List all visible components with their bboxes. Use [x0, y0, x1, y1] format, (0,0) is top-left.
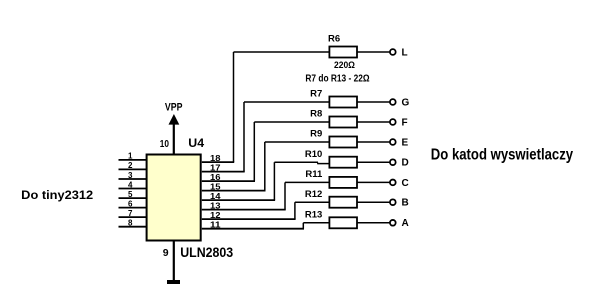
svg-text:Do katod wyswietlaczy: Do katod wyswietlaczy	[431, 146, 573, 163]
svg-text:14: 14	[210, 192, 221, 201]
svg-text:7: 7	[128, 209, 133, 218]
svg-text:5: 5	[128, 190, 133, 199]
svg-text:R13: R13	[305, 210, 322, 221]
svg-text:8: 8	[128, 219, 133, 228]
svg-text:9: 9	[163, 247, 169, 259]
svg-text:6: 6	[128, 199, 133, 208]
svg-text:U4: U4	[188, 136, 204, 150]
svg-text:13: 13	[210, 202, 221, 211]
svg-text:11: 11	[210, 221, 221, 230]
svg-text:E: E	[402, 137, 409, 148]
svg-text:18: 18	[210, 154, 221, 163]
svg-text:Do tiny2312: Do tiny2312	[21, 188, 93, 202]
svg-text:B: B	[402, 198, 409, 209]
svg-text:15: 15	[210, 183, 221, 192]
svg-text:D: D	[402, 158, 409, 169]
svg-text:3: 3	[128, 171, 133, 180]
svg-text:G: G	[402, 97, 410, 108]
svg-text:10: 10	[160, 139, 170, 150]
svg-text:220Ω: 220Ω	[334, 60, 355, 71]
svg-text:R10: R10	[305, 149, 322, 160]
svg-text:F: F	[402, 117, 408, 128]
svg-text:R6: R6	[328, 34, 340, 45]
svg-text:A: A	[402, 218, 409, 229]
svg-text:VPP: VPP	[165, 102, 183, 114]
svg-text:12: 12	[210, 211, 221, 220]
svg-text:L: L	[402, 47, 408, 58]
svg-text:R7: R7	[310, 89, 322, 100]
svg-text:R9: R9	[310, 129, 322, 140]
svg-text:1: 1	[128, 152, 133, 161]
svg-text:R7 do R13 - 22Ω: R7 do R13 - 22Ω	[305, 74, 369, 85]
svg-text:C: C	[402, 178, 409, 189]
svg-text:17: 17	[210, 164, 221, 173]
svg-text:R8: R8	[310, 109, 322, 120]
svg-text:R11: R11	[305, 169, 323, 180]
svg-text:R12: R12	[305, 189, 322, 200]
svg-text:16: 16	[210, 173, 221, 182]
svg-text:2: 2	[128, 161, 133, 170]
svg-text:4: 4	[128, 180, 133, 189]
svg-text:ULN2803: ULN2803	[180, 245, 233, 260]
